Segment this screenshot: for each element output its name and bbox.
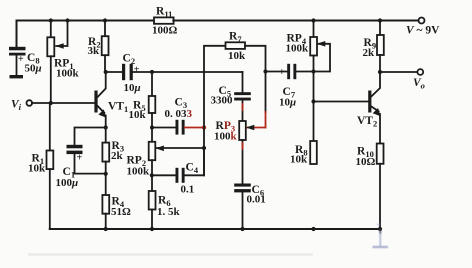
wire to VT2 base [314, 101, 369, 103]
wire RP3 wiper riser (red) [265, 112, 267, 128]
capacitor C6 [234, 184, 251, 230]
svg-text:+: + [18, 54, 24, 65]
node RP2 wiper-C4 [202, 146, 206, 150]
svg-text:50μ: 50μ [25, 63, 42, 75]
wire C3 to node (red) [185, 127, 204, 129]
node VT2 base tap [311, 99, 315, 103]
svg-text:+: + [77, 153, 83, 164]
resistor R11 [154, 17, 174, 23]
node RP2-C4-R6 [150, 173, 154, 177]
svg-text:0.1: 0.1 [181, 184, 195, 196]
wire to Vo [380, 71, 418, 73]
svg-text:2k: 2k [363, 47, 376, 59]
ground [10, 75, 24, 78]
svg-text:3300: 3300 [211, 95, 234, 107]
erased ground smudge [373, 225, 389, 248]
svg-text:10k: 10k [129, 109, 147, 121]
resistor R5 [149, 72, 156, 128]
svg-text:Vo: Vo [413, 77, 425, 91]
resistor R1 [47, 103, 54, 229]
svg-text:2k: 2k [111, 150, 124, 162]
node VT1 collector / R2 / C2 [104, 70, 108, 74]
node rail-R4 [104, 227, 108, 231]
node R5-C3-RP2 [150, 126, 154, 130]
wire R7 left vertical [204, 46, 226, 176]
svg-text:Vi: Vi [11, 99, 22, 113]
svg-text:+: + [134, 65, 140, 76]
node rail-R2 [103, 18, 107, 22]
svg-text:100k: 100k [286, 43, 310, 55]
svg-text:+: + [279, 67, 285, 78]
node rail-RP1 wiper [65, 18, 69, 22]
capacitor C5 [234, 72, 251, 121]
node C7-RP4 [311, 69, 315, 73]
svg-text:100k: 100k [214, 131, 238, 143]
capacitor C3 [152, 120, 185, 135]
svg-text:VT1: VT1 [108, 101, 128, 115]
svg-text:VT2: VT2 [357, 115, 377, 129]
svg-text:10μ: 10μ [124, 82, 141, 94]
svg-text:10k: 10k [290, 154, 308, 166]
resistor R9 [377, 21, 384, 73]
node C2-R5 [150, 70, 154, 74]
svg-text:10k: 10k [28, 163, 46, 175]
node rail-R9 [378, 18, 382, 22]
scan streak [28, 253, 313, 256]
resistor R7 [226, 42, 246, 49]
node rail-RP1 [49, 18, 53, 22]
potentiometer RP4 [310, 21, 330, 142]
svg-text:1. 5k: 1. 5k [157, 206, 181, 218]
svg-text:10k: 10k [228, 50, 246, 62]
potentiometer RP3 [239, 121, 265, 183]
svg-text:C4: C4 [186, 162, 199, 176]
svg-text:0. 033: 0. 033 [165, 108, 193, 120]
node rail-R8 [311, 227, 315, 231]
node rail-R6 [150, 227, 154, 231]
wire top rail left segment [17, 21, 155, 47]
svg-text:100μ: 100μ [56, 177, 79, 189]
node VT1 emitter-R3-C1 [104, 125, 108, 129]
svg-text:10Ω: 10Ω [356, 156, 376, 168]
svg-text:100k: 100k [127, 166, 151, 178]
svg-text:51Ω: 51Ω [111, 206, 131, 218]
capacitor C7 [266, 64, 314, 79]
node rail-RP4 [311, 18, 315, 22]
node rail-R10 [378, 227, 382, 231]
terminal V-9V [419, 18, 425, 24]
svg-text:V ~ 9V: V ~ 9V [406, 25, 440, 37]
svg-text:R7: R7 [229, 31, 242, 45]
potentiometer RP1 [47, 21, 67, 104]
wire Vi to VT1 base [32, 102, 95, 104]
capacitor C8 [9, 47, 26, 76]
capacitor C2 [106, 64, 152, 80]
node R9-VT2 collector-Vo [378, 70, 382, 74]
resistor R3 [102, 128, 109, 174]
resistor R6 [149, 175, 156, 229]
potentiometer RP2 [149, 128, 204, 176]
svg-text:100Ω: 100Ω [152, 25, 178, 37]
resistor R8 [310, 141, 317, 164]
node C1-R3-R4 [104, 172, 108, 176]
wire top rail right segment [173, 20, 418, 22]
wire bottom rail [50, 228, 381, 230]
svg-text:R11: R11 [156, 6, 172, 20]
svg-text:10μ: 10μ [279, 97, 296, 109]
svg-text:3k: 3k [88, 45, 101, 57]
svg-text:0.01: 0.01 [247, 194, 266, 206]
capacitor C4 [152, 148, 204, 183]
wire node to C5 branch [152, 71, 243, 73]
wire R7 right vertical [245, 46, 266, 112]
resistor R4 [102, 174, 109, 229]
capacitor C1 [67, 128, 106, 174]
transistor VT2 [368, 73, 380, 144]
terminal Vi [27, 100, 33, 106]
terminal Vo [417, 69, 423, 75]
node C3-RP3 net (red) [202, 125, 206, 129]
node Vi-R1-RP1 [49, 101, 53, 105]
node R7-C7 [263, 69, 267, 73]
node rail-C6 [240, 227, 244, 231]
svg-text:100k: 100k [56, 68, 80, 80]
resistor R2 [102, 21, 109, 73]
resistor R10 [377, 144, 384, 230]
transistor VT1 [94, 73, 106, 128]
